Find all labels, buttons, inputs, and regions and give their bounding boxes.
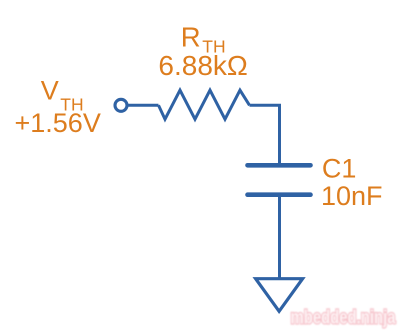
svg-text:mbedded.ninja: mbedded.ninja	[291, 308, 396, 329]
wire	[278, 196, 281, 280]
svg-text:C1: C1	[322, 154, 357, 184]
svg-text:+1.56V: +1.56V	[15, 108, 101, 138]
wire	[127, 104, 158, 107]
svg-text:6.88kΩ: 6.88kΩ	[158, 50, 247, 81]
wire	[250, 105, 280, 164]
svg-text:R: R	[181, 22, 201, 53]
ground	[256, 279, 303, 312]
svg-text:10nF: 10nF	[321, 181, 383, 211]
svg-text:V: V	[41, 76, 59, 106]
terminal node VTH	[115, 99, 127, 111]
capacitor C1	[248, 165, 311, 194]
resistor RTH	[159, 90, 250, 119]
